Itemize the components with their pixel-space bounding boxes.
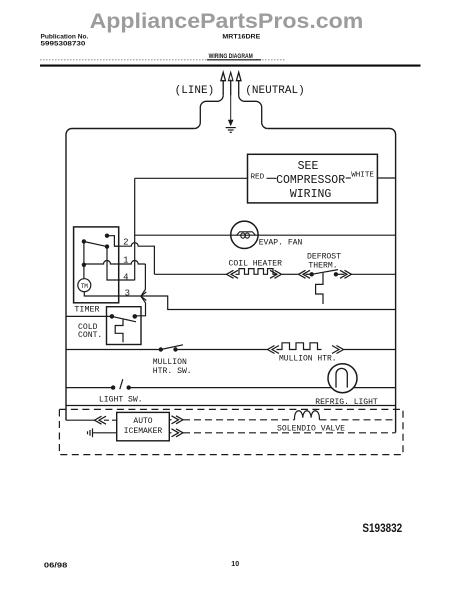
svg-text:Publication No.: Publication No. <box>41 34 89 41</box>
svg-text:MULLION: MULLION <box>153 358 187 367</box>
model number MRT16DRE <box>222 34 260 41</box>
timer contact node A <box>105 234 109 238</box>
label COLD CONT. <box>78 323 102 340</box>
svg-text:THERM.: THERM. <box>308 261 337 270</box>
wire D to timer motor <box>83 265 85 279</box>
connector arrows before coil heater <box>227 270 239 278</box>
wire node C to pin 4 <box>107 247 135 280</box>
wire defrost segment <box>306 273 312 275</box>
svg-text:COMPRESSOR: COMPRESSOR <box>276 174 345 187</box>
wire D to pin 1 with hops <box>84 261 145 265</box>
connector arrows out upper <box>172 416 184 424</box>
svg-text:LIGHT SW.: LIGHT SW. <box>99 396 143 405</box>
evap fan motor M1 <box>231 221 258 248</box>
wire red vertical feed <box>134 178 136 280</box>
wire icemaker ground lead <box>93 432 117 434</box>
solenoid valve coil L1 <box>295 411 320 420</box>
label DEFROST THERM. <box>307 252 341 270</box>
connector arrows after mullion heater <box>332 346 344 354</box>
label WHITE <box>351 171 374 179</box>
connector arrows after coil heater <box>270 270 282 278</box>
connector arrows after defrost therm <box>340 270 352 278</box>
wire icemaker feed (from left edge) <box>66 419 95 421</box>
svg-text:10: 10 <box>231 561 239 568</box>
compressor box SEE COMPRESSOR WIRING <box>248 154 378 203</box>
thick header rule <box>40 65 421 67</box>
title underline <box>207 59 261 61</box>
cold control thermal hook <box>115 319 123 342</box>
cold control contact left <box>110 314 115 319</box>
light switch plunger arm <box>120 379 123 389</box>
svg-text:SOLENDIO VALVE: SOLENDIO VALVE <box>277 424 345 433</box>
svg-text:AppliancePartsPros.com: AppliancePartsPros.com <box>90 10 364 33</box>
svg-text:S193832: S193832 <box>362 523 402 535</box>
coil heater element <box>236 269 277 275</box>
ground symbol <box>226 120 236 133</box>
wire dashed lower to right edge <box>183 432 396 434</box>
svg-text:HTR. SW.: HTR. SW. <box>153 367 192 376</box>
svg-text:SEE: SEE <box>298 160 319 173</box>
connector arrows before mullion heater <box>268 346 280 354</box>
wire node A to pin 2 <box>107 236 119 247</box>
svg-text:4: 4 <box>123 272 128 282</box>
main cabinet outline <box>66 129 396 433</box>
svg-text:TIMER: TIMER <box>74 304 99 314</box>
svg-text:1: 1 <box>123 255 128 265</box>
svg-text:WHITE: WHITE <box>351 171 374 179</box>
wire dashed into icemaker <box>104 419 117 421</box>
plug prong NEUTRAL (right) <box>236 72 267 128</box>
defrost thermal element hook <box>316 273 323 304</box>
wire bottom rail <box>66 405 396 407</box>
label TIMER <box>74 304 99 314</box>
timer node D junction <box>82 263 86 267</box>
label (NEUTRAL) <box>245 85 304 97</box>
svg-text:WIRING: WIRING <box>290 188 332 201</box>
label (LINE) <box>175 85 215 97</box>
cold control contact right <box>133 314 138 319</box>
wire dashed to solenoid <box>183 419 295 421</box>
wire pin 1 drop to cold control <box>135 264 146 316</box>
refrigerator light lamp <box>328 364 357 393</box>
wire dashed solenoid to right edge <box>320 419 396 421</box>
wire defrost right segment <box>336 273 345 275</box>
wire pin 2 run with hop <box>114 243 154 275</box>
plug prong ground (middle) <box>228 72 233 120</box>
title WIRING DIAGRAM <box>209 53 253 60</box>
dotted separator line <box>40 59 285 61</box>
timer switch arm B-C <box>84 242 107 247</box>
connector arrows before defrost therm <box>299 270 311 278</box>
label RED <box>251 174 265 182</box>
light switch contacts <box>111 385 115 389</box>
wire light switch rail <box>66 387 396 389</box>
wire WHITE from compressor <box>346 177 396 179</box>
svg-text:MRT16DRE: MRT16DRE <box>222 34 260 41</box>
label EVAP. FAN <box>259 238 303 247</box>
svg-text:06/98: 06/98 <box>44 562 68 569</box>
timer motor TM <box>78 279 91 292</box>
svg-text:CONT.: CONT. <box>78 331 102 340</box>
mullion switch arm <box>161 345 183 350</box>
connector arrow on pin1/rail crossing <box>141 292 146 301</box>
svg-text:WIRING DIAGRAM: WIRING DIAGRAM <box>209 53 253 60</box>
plug prong LINE (left) <box>194 72 225 128</box>
timer contact node B <box>82 239 86 243</box>
wire B down to D <box>83 242 85 265</box>
mullion heater element <box>277 343 322 350</box>
mullion heater switch contacts <box>159 347 163 351</box>
wire coil heater rail <box>154 273 395 275</box>
svg-text:MULLION HTR.: MULLION HTR. <box>279 355 337 364</box>
wire mullion rail <box>66 349 396 351</box>
label MULLION HTR. SW. <box>153 358 192 376</box>
svg-text:EVAP. FAN: EVAP. FAN <box>259 238 303 247</box>
timer T1 box <box>74 227 119 303</box>
wire RED to compressor <box>135 177 277 179</box>
svg-text:ICEMAKER: ICEMAKER <box>124 427 163 436</box>
auto icemaker box <box>117 412 170 440</box>
wire timer motor to pin 3 rail <box>84 292 395 310</box>
defrost thermostat contacts <box>310 272 314 276</box>
icemaker dashed enclosure <box>59 409 403 454</box>
svg-text:3: 3 <box>125 288 130 298</box>
svg-text:2: 2 <box>123 238 128 248</box>
icemaker ground <box>88 428 93 437</box>
svg-text:DEFROST: DEFROST <box>307 252 341 261</box>
timer contact node C <box>105 244 109 248</box>
wire evap fan rail <box>135 234 396 236</box>
connector arrows icemaker feed <box>95 416 107 424</box>
wire icemaker out upper <box>169 419 171 421</box>
svg-text:COIL HEATER: COIL HEATER <box>229 259 283 268</box>
svg-text:(LINE): (LINE) <box>175 85 215 97</box>
svg-text:(NEUTRAL): (NEUTRAL) <box>245 85 304 97</box>
cold control switch arm <box>112 316 136 321</box>
defrost switch arm <box>312 270 338 275</box>
connector arrows out lower <box>172 429 184 437</box>
watermark header AppliancePartsPros.com <box>90 10 364 33</box>
wire cold control feed from left <box>66 315 112 317</box>
publication number block <box>41 34 89 48</box>
svg-text:RED: RED <box>251 174 265 182</box>
svg-text:AUTO: AUTO <box>133 417 152 426</box>
cold control box <box>107 307 142 345</box>
svg-text:TM: TM <box>81 283 89 290</box>
svg-text:5995308730: 5995308730 <box>41 41 86 48</box>
wire icemaker out lower <box>169 432 171 434</box>
